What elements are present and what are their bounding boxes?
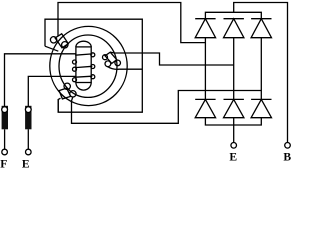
rotor field winding turn 2: [73, 60, 95, 69]
wire B+ riser: [234, 3, 288, 143]
wire E terminal right: [233, 125, 235, 142]
rotor core body: [76, 41, 91, 90]
wire neutral ring (stator star bus): [45, 19, 142, 112]
phase column 3: [260, 38, 262, 100]
diode D3 (top row, right): [251, 19, 271, 38]
stator coil A (top-left): [45, 34, 68, 51]
diode D6 (bottom row, right): [251, 99, 271, 117]
svg-text:F: F: [0, 157, 7, 169]
stator outer ring: [50, 26, 127, 105]
svg-text:E: E: [22, 157, 30, 169]
rotor field winding turn 1: [75, 53, 95, 57]
brush 2 (E): [25, 106, 31, 155]
svg-text:E: E: [229, 151, 237, 164]
wire phase C: coil C to bridge: [72, 91, 262, 124]
diode D4 (bottom row, left): [195, 99, 215, 117]
svg-text:B: B: [283, 151, 291, 164]
diode D1 (top row, left): [195, 19, 215, 38]
rectifier bottom bus: [205, 118, 261, 125]
terminal circle E right: [231, 143, 237, 149]
stator inner ring: [59, 35, 117, 97]
wire phase B upper: coil B to bridge: [115, 53, 234, 65]
wire brush F to rotor: [5, 54, 76, 107]
stub bottom mid: [233, 118, 235, 125]
rectifier top bus: [205, 12, 261, 18]
diode D2 (top row, middle): [224, 19, 244, 38]
stator coil C (bottom-left): [58, 83, 76, 112]
diode D5 (bottom row, middle): [224, 99, 244, 117]
terminal circle B: [285, 143, 291, 149]
phase column 1: [204, 38, 206, 100]
rotor field winding turn 3: [73, 67, 95, 82]
brush 1 (F): [2, 106, 8, 155]
wire top phase A: coil A to bridge: [58, 3, 205, 43]
stator coil B (right): [103, 52, 143, 69]
phase column 2: [233, 38, 235, 100]
wire brush E to rotor: [28, 76, 75, 106]
